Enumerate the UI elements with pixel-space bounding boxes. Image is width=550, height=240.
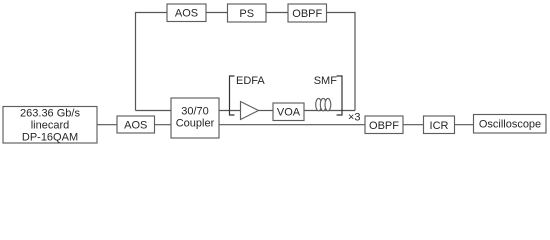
OBPF box (bottom) <box>365 116 403 134</box>
svg-text:ICR: ICR <box>430 120 449 132</box>
svg-text:OBPF: OBPF <box>369 120 399 132</box>
SMF fiber coil loop 1 <box>316 98 322 110</box>
wire top: loop left vertical riser x=135.5 <box>136 13 168 111</box>
wire: top AOS to PS <box>206 12 228 14</box>
svg-text:AOS: AOS <box>175 8 198 20</box>
svg-text:Oscilloscope: Oscilloscope <box>479 119 541 131</box>
wire: PS to OBPF (top) <box>266 12 288 14</box>
svg-text:30/70: 30/70 <box>181 105 209 117</box>
bracket ] after SMF <box>337 76 342 115</box>
svg-text:EDFA: EDFA <box>236 75 265 87</box>
PS box (top) <box>228 4 267 22</box>
svg-text:AOS: AOS <box>124 119 147 131</box>
wire: coupler upper-right port to EDFA amp <box>219 110 241 112</box>
ICR box <box>424 116 455 134</box>
SMF fiber coil loop 2 <box>320 98 326 110</box>
transmitter linecard box <box>3 107 97 144</box>
wire: VOA to SMF coil and on to right riser <box>304 110 355 112</box>
wire: EDFA amp to VOA <box>259 110 274 112</box>
svg-text:×3: ×3 <box>348 112 361 124</box>
SMF fiber coil loop 3 <box>325 98 331 110</box>
svg-text:Coupler: Coupler <box>176 117 215 129</box>
EDFA amplifier triangle <box>241 102 259 120</box>
wire: coupler lower-right port to OBPF (bottom) <box>219 124 365 126</box>
bracket [ before EDFA <box>230 76 235 115</box>
svg-text:263.36 Gb/s: 263.36 Gb/s <box>20 108 80 120</box>
svg-text:PS: PS <box>239 8 254 20</box>
wire: AOS (bottom) to coupler lower-left port <box>155 124 172 126</box>
svg-text:OBPF: OBPF <box>292 8 322 20</box>
svg-text:VOA: VOA <box>277 107 301 119</box>
svg-text:linecard: linecard <box>31 120 70 132</box>
svg-text:SMF: SMF <box>314 75 338 87</box>
wire: OBPF (top) to right vertical riser <box>327 13 356 111</box>
wire: linecard to AOS (bottom) <box>97 124 117 126</box>
VOA box <box>273 103 304 121</box>
svg-text:DP-16QAM: DP-16QAM <box>22 132 78 144</box>
wire: loop return into coupler upper-left port <box>136 110 172 112</box>
AOS box (top, loop switch) <box>167 4 206 22</box>
wire: ICR to Oscilloscope <box>455 124 474 126</box>
wire: OBPF (bottom) to ICR <box>403 124 424 126</box>
coupler 30/70 box <box>171 98 219 138</box>
OBPF box (top) <box>288 4 327 22</box>
AOS box (bottom, loop input switch) <box>117 116 155 133</box>
Oscilloscope box <box>474 115 547 134</box>
